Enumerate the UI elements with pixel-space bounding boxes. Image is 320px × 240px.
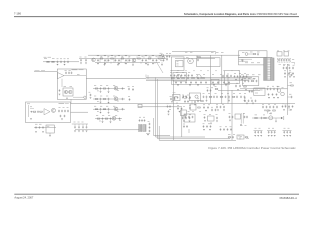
svg-text:7-186: 7-186 xyxy=(14,12,22,16)
svg-text:Figure 7-106. PM L4500SA Cont: Figure 7-106. PM L4500SA Controller Powe… xyxy=(208,146,296,150)
svg-text:Schematics, Component Location: Schematics, Component Location Diagrams,… xyxy=(184,13,298,16)
svg-text:August 24, 2007: August 24, 2007 xyxy=(14,195,33,199)
svg-text:6816982H01-A: 6816982H01-A xyxy=(280,196,298,200)
